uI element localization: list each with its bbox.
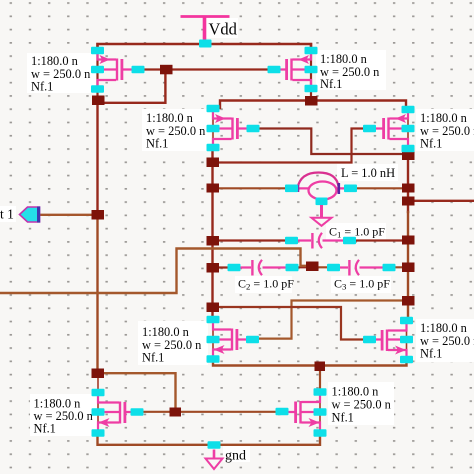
white backing box for gnd label — [223, 446, 250, 462]
white backing box for Vdd label — [206, 18, 238, 38]
wire Vdd rail with corners down to M1/M2 sources — [98, 44, 312, 48]
Vdd supply symbol — [181, 16, 230, 48]
white backing box for label of capacitor C2 — [235, 276, 292, 293]
transistor M4 (PMOS mirror, second row right) — [363, 106, 415, 153]
wire C1 right lead to node B bus — [354, 239, 408, 241]
wire x=97.5 bias bus: out1 junction down to bottom mirror junction — [96, 100, 98, 215]
white backing box for labels of transistor M5 — [138, 321, 208, 365]
ground symbol gnd — [206, 441, 223, 469]
svg-text:Nf.1: Nf.1 — [332, 411, 354, 425]
wire C2 left lead from node A bus — [213, 266, 230, 268]
wire cross-couple node A to M6 gate — [213, 307, 369, 340]
junction M2 drain on PMOS source bus — [305, 96, 318, 106]
wire node A horizontal: M3 drain junction right to vertical riser — [213, 129, 367, 163]
svg-text:Nf.1: Nf.1 — [320, 77, 342, 91]
junction bias bus to mirror gates — [92, 369, 105, 379]
inductor L1 with centre tap to ground — [285, 173, 357, 226]
junction node A C1 tap — [207, 236, 220, 246]
junction node B inductor tap — [402, 184, 415, 193]
wire cross-couple node B to M5 gate — [252, 301, 406, 339]
junction out1 tap on bias bus — [92, 210, 105, 220]
svg-text:Nf.1: Nf.1 — [420, 137, 442, 151]
wire M5 pin column — [212, 317, 214, 361]
svg-text:1:180.0 n: 1:180.0 n — [420, 321, 467, 335]
white backing box for labels of transistor M1 — [27, 53, 96, 93]
wire C1 left lead from node A bus — [213, 239, 288, 241]
junction node B at M4 drain — [402, 152, 415, 161]
svg-text:Nf.1: Nf.1 — [34, 422, 56, 436]
wire M3 gate cross-couple to M4 drain junction — [257, 129, 408, 155]
wire external tap from left edge to C2/C3 mid junction — [0, 249, 309, 294]
junction M1 drain / bias node — [92, 96, 105, 106]
junction node A at M3 drain — [207, 158, 220, 168]
junction M1-M2 gate tie — [160, 65, 173, 75]
wire node bias: M1 drain junction right then up to gate junction — [98, 70, 166, 103]
junction node A C2 tap — [207, 263, 220, 273]
white backing box for labels of transistor M6 — [416, 319, 474, 362]
svg-text:w = 250.0 n: w = 250.0 n — [332, 398, 391, 412]
wire node B vertical bus: M4 drain junction down to M6 drain — [407, 153, 409, 212]
junction node B C1 tap — [402, 236, 415, 245]
wire inductor left lead from node A bus — [213, 187, 288, 189]
junction C2/C3 midpoint — [306, 262, 319, 272]
wire ground bus: M7 source down, along bottom, up to M8 source — [98, 434, 321, 445]
wire mirror bias bus from x=97.5 junction right then down to M7/M8 gate line — [98, 373, 176, 412]
white backing box for labels of transistor M4 — [416, 109, 474, 151]
junction node A inductor tap — [207, 184, 220, 193]
junction node B output tap — [402, 197, 415, 206]
white backing box for labels of transistor M3 — [142, 109, 211, 151]
transistor M1 (PMOS, diode-connected, top-left) — [91, 47, 145, 93]
white backing box for label of capacitor C3 — [331, 276, 391, 293]
wire M8 pin column — [319, 390, 321, 435]
wire out1 pin to x=97.5 bus junction — [40, 214, 98, 216]
transistor M7 (NMOS, bottom-left, diode-connected) — [92, 389, 144, 437]
svg-text:L = 1.0 nH: L = 1.0 nH — [341, 166, 395, 180]
white backing box for labels of transistor M8 — [328, 382, 394, 425]
svg-text:Nf.1: Nf.1 — [420, 347, 442, 361]
white backing box for labels of transistor M2 — [316, 50, 386, 90]
svg-text:gnd: gnd — [225, 449, 246, 464]
svg-text:1:180.0 n: 1:180.0 n — [146, 111, 193, 125]
svg-text:t 1: t 1 — [0, 207, 14, 222]
transistor M5 (NMOS, third row left) — [207, 316, 260, 363]
white backing box for label of inductor L — [337, 164, 398, 181]
wire C2/C3 mid junction to C3 left terminal — [312, 266, 329, 268]
wire M4 pin column — [407, 107, 409, 152]
transistor M6 (NMOS mirror, third row right) — [363, 317, 413, 364]
wire inductor right lead to node B bus — [355, 187, 408, 189]
wire right output exiting at right edge — [408, 200, 474, 202]
white backing box for label of capacitor C1 — [326, 223, 386, 240]
transistor M2 (PMOS mirror, top-right) — [268, 47, 318, 93]
wire M6 pin column — [406, 318, 408, 362]
transistor M3 (PMOS, second row left) — [207, 105, 260, 152]
wire PMOS source bus: M3 source up, along y=100.5, M2 drain junction, down to M4 source — [220, 101, 406, 109]
capacitor C1 — [285, 233, 356, 249]
wire M3 pin column — [212, 106, 214, 150]
svg-text:Nf.1: Nf.1 — [142, 351, 164, 365]
wire drop from tail bus junction down to M8 drain — [319, 366, 321, 391]
svg-text:1:180.0 n: 1:180.0 n — [420, 111, 467, 125]
svg-text:1:180.0 n: 1:180.0 n — [332, 385, 379, 399]
wire M7 pin column — [97, 373, 99, 435]
output pin out1 (left edge) — [20, 207, 41, 223]
wire gate line M1 gate to M2 gate through junction — [140, 68, 272, 70]
svg-text:Nf.1: Nf.1 — [146, 137, 168, 151]
wire M7 gate to M8 gate line through junction — [140, 411, 278, 413]
white backing box for out pin label — [0, 206, 16, 222]
capacitor C2 — [228, 260, 299, 276]
junction M7/M8 gate line tap — [170, 408, 182, 417]
wire C3 right terminal to node B bus — [394, 266, 408, 268]
capacitor C3 — [327, 260, 396, 276]
junction tail bus to M8 drain — [315, 362, 326, 372]
junction node B cross-couple tap — [402, 296, 415, 306]
wire C2 right terminal to C2/C3 mid junction — [297, 266, 312, 268]
svg-text:Nf.1: Nf.1 — [31, 80, 53, 94]
wire M1 spine: Vdd rail down through M1 pins to drain junction — [96, 44, 98, 100]
wire M3 drain to node A junction and bus down to M5 drain — [211, 149, 213, 318]
svg-text:Vdd: Vdd — [209, 20, 238, 39]
wire M2 spine: Vdd rail down through M2 pins to drain junction — [310, 44, 312, 101]
svg-text:1:180.0 n: 1:180.0 n — [142, 325, 189, 339]
svg-text:1:180.0 n: 1:180.0 n — [31, 54, 78, 68]
transistor M8 (NMOS mirror, bottom-right) — [276, 388, 327, 437]
wire tail bus: M5 source to M6 source with centre drop to M8 drain — [213, 359, 407, 366]
white backing box for labels of transistor M7 — [30, 394, 98, 436]
junction node A cross-couple tap — [207, 303, 220, 313]
svg-text:1:180.0 n: 1:180.0 n — [320, 52, 367, 66]
junction node B C3 tap — [402, 263, 415, 273]
